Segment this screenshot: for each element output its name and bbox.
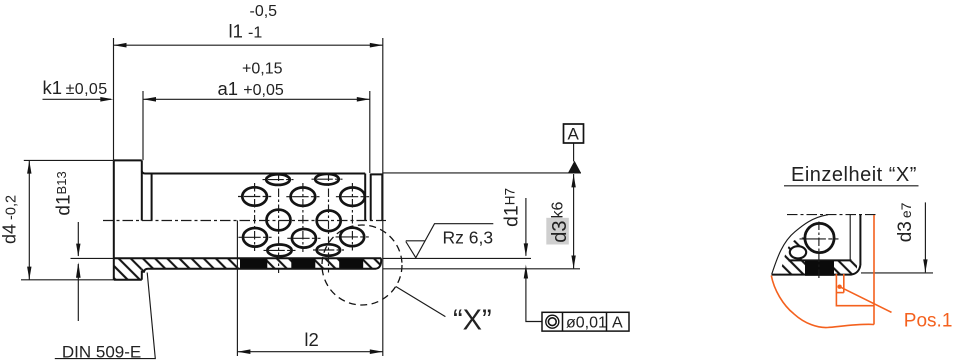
- svg-text:A: A: [568, 125, 580, 144]
- svg-text:Pos.1: Pos.1: [904, 310, 953, 331]
- svg-text:±0,05: ±0,05: [66, 81, 108, 98]
- svg-text:-0,5: -0,5: [250, 3, 278, 20]
- svg-text:-1: -1: [248, 25, 262, 42]
- svg-text:Einzelheit “X”: Einzelheit “X”: [791, 164, 917, 186]
- svg-text:d4 -0,2: d4 -0,2: [0, 195, 20, 244]
- svg-text:A: A: [612, 314, 623, 331]
- svg-text:DIN 509-E: DIN 509-E: [62, 343, 141, 360]
- svg-text:l1: l1: [229, 21, 243, 42]
- svg-text:k1: k1: [43, 77, 63, 98]
- svg-text:ø0,01: ø0,01: [566, 314, 607, 331]
- svg-text:+0,15: +0,15: [242, 60, 283, 77]
- svg-text:l2: l2: [304, 329, 318, 350]
- svg-text:a1: a1: [218, 78, 239, 99]
- svg-text:“X”: “X”: [453, 305, 492, 337]
- svg-text:Rz 6,3: Rz 6,3: [443, 228, 494, 248]
- svg-text:+0,05: +0,05: [243, 82, 284, 99]
- svg-text:d3e7: d3e7: [895, 202, 916, 242]
